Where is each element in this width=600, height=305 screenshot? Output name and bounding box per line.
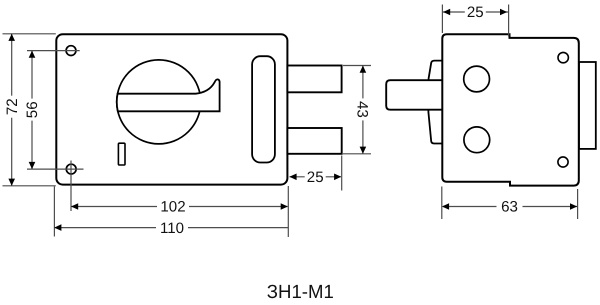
bolt collar (side view): [428, 61, 442, 144]
text 102: [157, 200, 189, 214]
mounting strip (side view, right): [579, 62, 596, 149]
extension line side body step (for 25 top): [508, 5, 510, 37]
side view bottom screw hole: [558, 157, 568, 167]
arrow 43 down: [360, 147, 367, 154]
dimension line 63: [443, 206, 577, 208]
lower cylinder hole: [464, 127, 490, 153]
text 56: [26, 99, 39, 121]
dimension line 25 (top right): [442, 11, 508, 13]
lower latch bolt (front view): [287, 128, 341, 154]
extension line lower bolt bottom (for 43): [343, 153, 371, 155]
arrow 102 right: [281, 203, 288, 210]
arrow 25L right: [334, 174, 341, 181]
extension line through top screw hole (for 56): [27, 50, 80, 52]
arrow 25R right: [500, 9, 507, 16]
text 63: [497, 200, 523, 214]
svg-text:72: 72: [4, 98, 21, 115]
knob rosette circle: [117, 60, 201, 144]
arrow 43 up: [360, 66, 367, 73]
svg-text:102: 102: [160, 199, 185, 216]
extension line body top (for 72): [3, 33, 56, 35]
extension line side body right bottom (for 63): [577, 189, 579, 219]
svg-text:63: 63: [501, 199, 518, 216]
text 25 top right: [465, 6, 486, 19]
extension line body bottom (for 72): [3, 185, 56, 187]
upper latch bolt (front view): [287, 66, 341, 93]
dimension line 25 (left view): [290, 176, 341, 178]
dimension line 110: [54, 227, 288, 229]
top-left screw hole: [66, 46, 76, 56]
knob lever handle: [117, 79, 220, 111]
svg-text:110: 110: [160, 220, 184, 237]
extension line left of body (for 110): [53, 187, 55, 237]
arrow 102 left: [71, 203, 78, 210]
faceplate slot: [252, 56, 275, 162]
extension line bolt tip (for 25 left view): [341, 156, 343, 191]
dimension line 56: [31, 51, 33, 170]
svg-text:25: 25: [467, 4, 484, 21]
lock case (side view) with stepped edges: [442, 34, 579, 185]
extension line through bottom screw hole (for 56): [27, 168, 84, 170]
side view top screw hole: [558, 52, 568, 62]
arrow 72 up: [8, 34, 15, 41]
dimension line 43: [362, 66, 364, 154]
arrow 56 up: [29, 51, 36, 58]
arrow 25R left: [443, 9, 450, 16]
extension line right of body (for 102/110): [287, 186, 289, 237]
text 72: [5, 96, 18, 118]
dimension line 102: [71, 206, 288, 208]
bolt shaft (side view): [386, 80, 442, 110]
bottom-left screw hole: [66, 164, 76, 174]
keyhole slot: [118, 143, 125, 165]
extension line side body left (for 25 top): [441, 5, 443, 34]
extension line upper bolt top (for 43): [343, 65, 371, 67]
text 43: [356, 98, 369, 120]
upper cylinder hole: [464, 66, 490, 92]
svg-text:56: 56: [24, 101, 41, 118]
svg-text:25: 25: [307, 169, 324, 186]
extension line through bottom screw hole vertical (for 102): [70, 161, 72, 212]
extension line side body left bottom (for 63): [441, 187, 443, 220]
svg-text:43: 43: [354, 101, 371, 118]
arrow 110 left: [54, 224, 61, 231]
lock body front view: [56, 34, 287, 184]
dimension line 72: [11, 34, 13, 186]
text 110: [156, 221, 188, 235]
arrow 63 right: [570, 203, 577, 210]
arrow 72 down: [8, 179, 15, 186]
arrow 56 down: [29, 162, 36, 169]
text 25 left view: [305, 170, 326, 183]
svg-text:ЗН1-М1: ЗН1-М1: [267, 282, 334, 300]
arrow 25L left: [289, 174, 296, 181]
arrow 63 left: [442, 203, 449, 210]
